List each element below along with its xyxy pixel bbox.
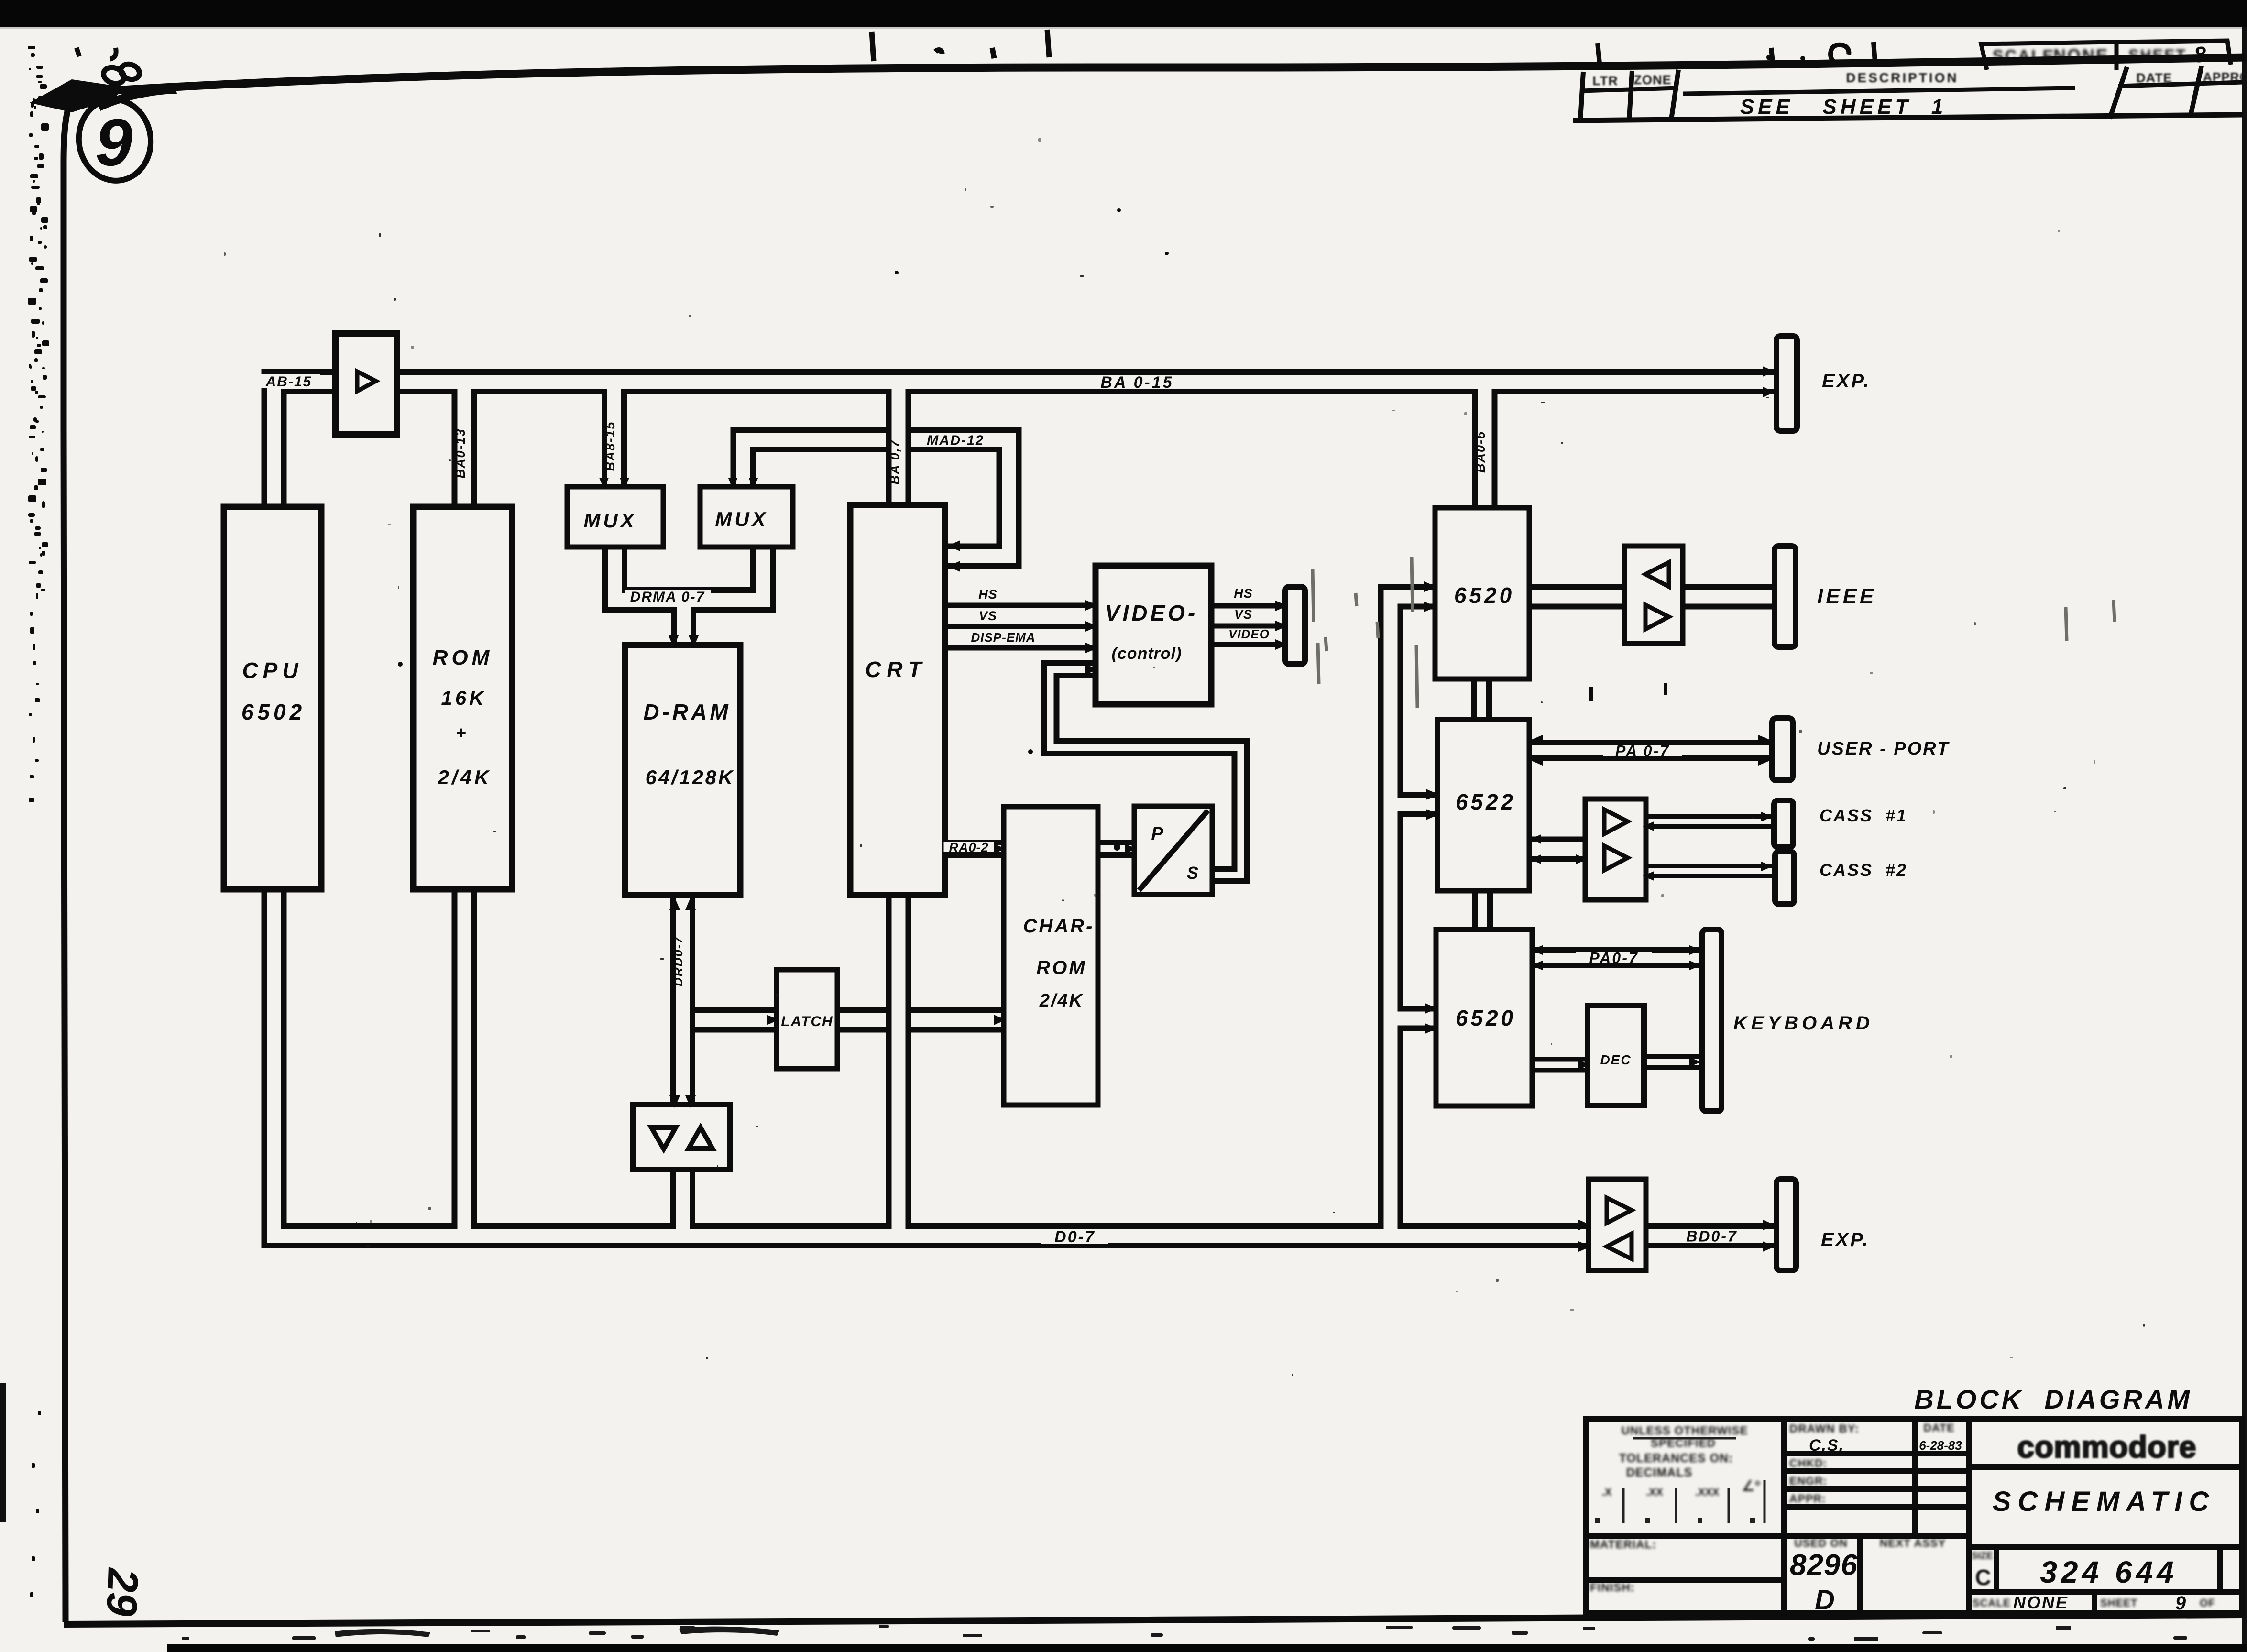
svg-text:6502: 6502 [241, 700, 306, 724]
title block frame [1586, 1419, 2242, 1613]
svg-text:KEYBOARD: KEYBOARD [1733, 1013, 1874, 1034]
tolerance block text [1595, 1424, 1765, 1523]
svg-text:MUX: MUX [583, 509, 636, 532]
scanner top black band [0, 0, 2247, 27]
labels HS VS VIDEO out [1228, 586, 1270, 641]
expansion driver triangles [1607, 1198, 1632, 1259]
label MAD-12 [915, 433, 996, 448]
block MUX left [567, 487, 663, 547]
wire MAD0-12 bus [743, 440, 1009, 557]
small dark marks [398, 208, 1667, 1227]
svg-text:MATERIAL:: MATERIAL: [1590, 1538, 1656, 1551]
svg-text:SHEET: SHEET [2100, 1597, 2137, 1609]
wire DRMA0-7 mux outputs to D-RAM [615, 540, 763, 650]
revision table [1573, 66, 2243, 120]
svg-text:USER - PORT: USER - PORT [1817, 739, 1950, 759]
connector EXP data [1776, 1179, 1796, 1270]
buffer address bus driver [336, 333, 397, 434]
wire 6520 to IEEE buffers and connector [1529, 584, 1776, 610]
svg-text:9: 9 [2175, 1593, 2186, 1614]
svg-text:9: 9 [95, 105, 132, 180]
svg-text:BD0-7: BD0-7 [1686, 1228, 1737, 1245]
connector cassette 2 [1775, 852, 1794, 904]
svg-text:D0-7: D0-7 [1054, 1228, 1096, 1246]
label D0-7 [1041, 1228, 1108, 1246]
size C [1972, 1551, 1993, 1590]
scanner right black edge [2242, 27, 2247, 1652]
svg-text:.XXX: .XXX [1695, 1486, 1719, 1498]
svg-text:DRAWN BY:: DRAWN BY: [1789, 1422, 1859, 1435]
handwritten sheet number 9 circled [74, 95, 156, 185]
wire 6522 to cassette buffers [1528, 837, 1592, 862]
buffer IEEE drivers [1624, 546, 1683, 644]
svg-text:64/128K: 64/128K [646, 766, 735, 788]
block DEC keyboard decoder [1588, 1006, 1644, 1105]
block 6522 VIA [1437, 720, 1529, 891]
svg-text:HS: HS [1234, 586, 1253, 601]
svg-text:CPU: CPU [242, 658, 303, 683]
svg-text:2/4K: 2/4K [1039, 991, 1084, 1011]
svg-text:BA8-15: BA8-15 [603, 421, 617, 471]
svg-text:CRT: CRT [865, 657, 927, 682]
label VIDEO control [1105, 601, 1198, 663]
block bidirectional driver pair [633, 1105, 730, 1170]
stray marks above table [1598, 42, 1875, 63]
svg-text:.X: .X [1602, 1486, 1612, 1498]
svg-text:VS: VS [979, 609, 997, 623]
svg-text:324 644: 324 644 [2040, 1555, 2177, 1589]
svg-text:DATE: DATE [1924, 1422, 1955, 1434]
svg-text:BLOCK DIAGRAM: BLOCK DIAGRAM [1914, 1384, 2192, 1414]
svg-text:6522: 6522 [1456, 789, 1516, 814]
svg-text:TOLERANCES ON:: TOLERANCES ON: [1619, 1452, 1733, 1465]
svg-text:DRMA 0-7: DRMA 0-7 [630, 589, 705, 605]
svg-text:.XX: .XX [1646, 1486, 1663, 1498]
block MUX right [700, 487, 793, 547]
svg-text:AB-15: AB-15 [265, 374, 312, 390]
svg-text:6520: 6520 [1454, 583, 1514, 608]
buffer expansion data drivers [1589, 1179, 1646, 1270]
used-on box [1790, 1537, 1858, 1616]
connector EXP address [1776, 336, 1797, 431]
svg-text:NEXT ASSY: NEXT ASSY [1880, 1537, 1946, 1549]
scan noise specks [224, 138, 2145, 1376]
label D-RAM 64/128K [643, 700, 734, 788]
svg-text:C.S.: C.S. [1809, 1436, 1844, 1455]
block P-S serializer [1134, 806, 1212, 895]
svg-text:USED ON: USED ON [1794, 1537, 1848, 1549]
svg-text:DESCRIPTION: DESCRIPTION [1846, 70, 1958, 85]
svg-text:MAD-12: MAD-12 [927, 433, 984, 448]
svg-text:EXP.: EXP. [1821, 1229, 1870, 1250]
sheet left border [64, 96, 72, 1622]
P-S diagonal [1139, 810, 1208, 890]
svg-text:(control): (control) [1112, 645, 1182, 663]
connector video output [1285, 587, 1305, 664]
cassette driver triangles [1604, 810, 1628, 870]
svg-text:ENGR:: ENGR: [1789, 1475, 1827, 1487]
wire cassette 1 and 2 lines [1640, 821, 1777, 871]
svg-text:CHKD:: CHKD: [1789, 1457, 1827, 1469]
svg-text:VIDEO-: VIDEO- [1105, 601, 1198, 625]
scanner speckle band left edge [28, 46, 49, 1597]
svg-text:BA0-13: BA0-13 [453, 428, 468, 478]
svg-text:VIDEO: VIDEO [1228, 627, 1270, 641]
stray quote marks [77, 48, 116, 59]
svg-text:29: 29 [97, 1566, 147, 1617]
svg-text:6520: 6520 [1456, 1006, 1516, 1030]
scale sheet row [1973, 1593, 2215, 1614]
label P and S [1151, 824, 1198, 883]
svg-text:NONE: NONE [2013, 1593, 2069, 1612]
svg-text:D-RAM: D-RAM [643, 700, 731, 724]
wire address bus BA0-15 with CPU ROM MUX CRT 6520 taps [274, 382, 1779, 517]
svg-text:+: + [456, 723, 466, 743]
svg-text:HS: HS [978, 587, 997, 602]
wire PA0-7 user port [1528, 740, 1774, 761]
block D-RAM [625, 645, 740, 895]
label DRMA 0-7 [625, 589, 711, 605]
svg-text:DEC: DEC [1600, 1052, 1631, 1067]
svg-text:DATE: DATE [2136, 71, 2172, 85]
svg-text:ZONE: ZONE [1633, 73, 1671, 87]
connector user port [1772, 718, 1793, 780]
ghost scale-none box [1981, 42, 2116, 70]
sheet top border (wavy scan line) [61, 57, 2245, 94]
corner blob top-left [30, 79, 177, 112]
svg-text:PA0-7: PA0-7 [1589, 950, 1638, 967]
label PA0-7 keyboard [1576, 950, 1652, 967]
label RA0-2 [944, 841, 994, 855]
svg-text:MUX: MUX [715, 508, 768, 530]
svg-text:SCALE: SCALE [1973, 1597, 2011, 1609]
drawn-by column [1789, 1422, 1962, 1505]
svg-text:SEE SHEET 1: SEE SHEET 1 [1740, 95, 1947, 119]
bottom scan smudges [182, 1625, 2187, 1641]
svg-text:APPR:: APPR: [1789, 1492, 1826, 1505]
buffer triangle symbol [357, 372, 376, 391]
wire chip-to-chip selects [1481, 677, 1482, 932]
svg-text:CASS #2: CASS #2 [1820, 860, 1907, 880]
connector cassette 1 [1774, 800, 1793, 847]
wire 6520 to DEC to keyboard [1532, 1062, 1707, 1065]
svg-text:LATCH: LATCH [781, 1014, 833, 1029]
IEEE driver triangles [1645, 562, 1669, 629]
svg-text:6-28-83: 6-28-83 [1919, 1438, 1962, 1453]
svg-text:LTR: LTR [1592, 74, 1618, 88]
svg-text:SIZE: SIZE [1972, 1551, 1993, 1561]
svg-text:CASS #1: CASS #1 [1820, 806, 1907, 825]
connector IEEE [1775, 546, 1796, 647]
wires VIDEO out: HS VS VIDEO [1211, 606, 1289, 645]
block VIDEO control [1096, 566, 1211, 704]
block 6520 PIA IEEE [1435, 508, 1529, 679]
ghost sheet-8 box [2116, 41, 2233, 67]
svg-text:16K: 16K [441, 687, 486, 709]
svg-text:BA0-6: BA0-6 [1473, 431, 1488, 473]
wire RA0-2 CRT to CHAR-ROM [942, 840, 1007, 858]
revision table headers [1592, 70, 2247, 88]
svg-text:PA 0-7: PA 0-7 [1615, 743, 1670, 760]
svg-text:IEEE: IEEE [1817, 585, 1876, 608]
svg-text:SCHEMATIC: SCHEMATIC [1993, 1486, 2215, 1517]
svg-text:commodore: commodore [2017, 1430, 2196, 1464]
block ROM [413, 507, 512, 889]
block 6520 PIA keyboard [1436, 930, 1532, 1106]
sheet bottom border [64, 1615, 2243, 1624]
material finish labels [1590, 1538, 1656, 1594]
wire data bus D0-7 BD0-7 with taps [274, 597, 1779, 1236]
label PA 0-7 user port [1603, 743, 1682, 760]
svg-text:DECIMALS: DECIMALS [1626, 1466, 1693, 1479]
block CPU 6502 [224, 507, 321, 889]
svg-text:P: P [1151, 824, 1163, 844]
wires CRT to VIDEO: HS VS DISP-EMA [945, 605, 1096, 648]
svg-text:UNLESS OTHERWISE: UNLESS OTHERWISE [1622, 1424, 1748, 1437]
scanner left black sliver [0, 1383, 6, 1522]
svg-text:∠°: ∠° [1742, 1478, 1761, 1494]
svg-text:ROM: ROM [433, 646, 493, 669]
svg-text:OF: OF [2200, 1597, 2215, 1609]
arrowheads [599, 366, 1775, 1252]
buffer cassette drivers [1585, 799, 1646, 900]
stray marks top centre [872, 30, 1049, 61]
label AB-15 [258, 374, 320, 390]
svg-text:8296: 8296 [1790, 1549, 1858, 1582]
label BD0-7 [1674, 1228, 1750, 1245]
svg-text:BA 0,7: BA 0,7 [888, 439, 902, 484]
svg-text:2/4K: 2/4K [438, 766, 492, 788]
svg-text:FINISH:: FINISH: [1590, 1581, 1635, 1594]
svg-text:DRD0-7: DRD0-7 [671, 936, 685, 986]
svg-text:BA 0-15: BA 0-15 [1100, 373, 1173, 392]
block LATCH [777, 970, 837, 1069]
svg-text:C: C [1975, 1565, 1991, 1590]
wire P-S serializer output loop to VIDEO [1051, 669, 1241, 875]
svg-text:ROM: ROM [1036, 957, 1086, 978]
svg-text:D: D [1815, 1585, 1835, 1616]
svg-text:VS: VS [1234, 607, 1252, 622]
scanner bottom black band [167, 1644, 2247, 1652]
label BA 0-15 [1086, 373, 1189, 392]
label ROM 16K + 2/4K [433, 646, 493, 788]
wire keyboard rows PA0-7 [1532, 947, 1704, 968]
wire CHAR-ROM to P-S [1095, 840, 1138, 858]
svg-text:CHAR-: CHAR- [1023, 916, 1095, 937]
faint scan artifacts [1313, 557, 2115, 708]
wire DRD0-7 to LATCH and LATCH to CHAR-ROM [683, 1007, 1005, 1033]
doodle infinity top-left [101, 62, 142, 86]
svg-text:DISP-EMA: DISP-EMA [971, 630, 1035, 645]
label CHAR-ROM 2/4K [1023, 916, 1095, 1011]
svg-text:RA0-2: RA0-2 [949, 841, 988, 855]
svg-text:EXP.: EXP. [1822, 371, 1871, 392]
block CHAR-ROM [1004, 807, 1098, 1105]
svg-text:S: S [1187, 863, 1198, 883]
connector keyboard [1702, 930, 1721, 1111]
svg-text:APPRC: APPRC [2203, 70, 2247, 84]
driver triangles down/up [651, 1127, 712, 1149]
block CRT controller [850, 505, 945, 895]
labels HS VS DISP-EMA [971, 587, 1035, 645]
label CPU 6502 [241, 658, 306, 724]
